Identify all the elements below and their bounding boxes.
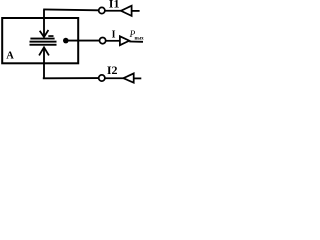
svg-text:I: I xyxy=(112,29,116,40)
svg-text:вых: вых xyxy=(135,36,145,41)
svg-text:A: A xyxy=(6,50,14,61)
svg-text:I2: I2 xyxy=(107,63,118,77)
svg-text:I1: I1 xyxy=(109,0,120,10)
